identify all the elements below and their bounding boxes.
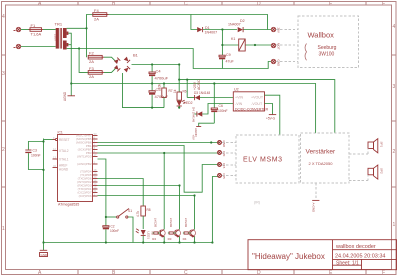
pad wallbox 2 — [271, 43, 280, 50]
terminal X1-2 — [14, 44, 21, 48]
svg-text:1: 1 — [393, 222, 396, 228]
junction — [78, 47, 80, 49]
svg-text:2 X TDA2050: 2 X TDA2050 — [309, 161, 334, 166]
svg-text:GND: GND — [41, 253, 49, 257]
svg-text:BC547: BC547 — [169, 217, 173, 227]
svg-text:P15: P15 — [222, 163, 226, 169]
junction LED2/minus rail — [178, 107, 180, 109]
svg-text:F: F — [382, 1, 385, 7]
svg-text:(INT1)PD3: (INT1)PD3 — [77, 155, 92, 159]
svg-text:K1: K1 — [231, 37, 235, 41]
fuse F4 — [93, 8, 109, 21]
wire TR1 sec bottom — [67, 48, 80, 50]
junction pad1 wire — [210, 141, 212, 143]
speaker SP1 — [368, 139, 384, 153]
capacitor C6 — [194, 82, 228, 137]
resistor R6 — [173, 80, 187, 101]
resistor R8 — [136, 206, 151, 229]
svg-text:2A: 2A — [89, 74, 94, 79]
svg-text:3: 3 — [2, 71, 5, 77]
svg-text:4: 4 — [2, 14, 5, 20]
ELV pads — [218, 141, 227, 149]
wire fuse to TR1 — [43, 29, 56, 31]
svg-text:MOT: MOT — [277, 43, 281, 50]
junction relay coil — [221, 44, 223, 46]
speaker SP2 — [368, 165, 384, 179]
wire F4 to D1 drop — [109, 15, 199, 30]
wire +5V net pad3 Z-path — [98, 146, 219, 193]
svg-text:IC1: IC1 — [58, 131, 63, 135]
capacitor C9 — [219, 53, 234, 69]
capacitor C5 — [149, 87, 169, 108]
svg-text:(AIN0)PB2: (AIN0)PB2 — [77, 162, 92, 166]
svg-text:F3: F3 — [89, 66, 94, 71]
svg-text:AGND: AGND — [59, 168, 69, 172]
svg-text:"Hideaway" Jukebox: "Hideaway" Jukebox — [252, 252, 325, 261]
svg-text:AGND: AGND — [63, 91, 67, 101]
svg-text:4700uF: 4700uF — [155, 75, 169, 80]
diode D2 — [228, 19, 245, 32]
svg-text:P20: P20 — [222, 151, 226, 157]
IC1 pin numbers — [53, 132, 97, 197]
svg-text:ATmega8535: ATmega8535 — [58, 202, 79, 206]
wire bus down to F2 — [86, 28, 88, 57]
brace — [305, 44, 307, 61]
svg-text:SP2: SP2 — [380, 168, 384, 174]
wire bridge minus down — [123, 73, 165, 108]
junction gnd rail end — [211, 241, 213, 243]
wire +VOUT to ELV — [265, 95, 280, 135]
svg-text:+VIN: +VIN — [235, 96, 243, 100]
svg-text:D: D — [257, 1, 261, 7]
svg-text:+VOUT: +VOUT — [251, 96, 264, 100]
svg-text:Seeburg: Seeburg — [318, 45, 337, 51]
wire T3 collector net — [98, 195, 195, 197]
LED1 — [136, 229, 155, 244]
svg-text:LED2: LED2 — [184, 101, 193, 105]
svg-text:100nF: 100nF — [31, 154, 41, 158]
svg-text:R8: R8 — [147, 208, 151, 212]
ground +5V-GND — [266, 115, 276, 121]
fuse F3 — [88, 66, 104, 79]
svg-text:4: 4 — [393, 24, 396, 30]
svg-text:F1: F1 — [31, 23, 36, 28]
wire F3 to bridge — [104, 68, 116, 73]
dashed link amp gnd — [315, 183, 317, 200]
fuse F1 — [29, 23, 44, 37]
dashed link amp to SP1 — [349, 153, 368, 155]
dashed links to wallbox — [276, 29, 298, 31]
svg-text:2A: 2A — [89, 59, 94, 64]
Verstaerker dashed box — [301, 133, 349, 183]
junction — [85, 27, 87, 29]
wire TR1 sec top to F4/F2 bus — [67, 27, 87, 29]
svg-text:LED1: LED1 — [147, 232, 151, 240]
wire relay coil drop — [221, 30, 223, 56]
svg-text:C3: C3 — [33, 149, 37, 153]
wire sec bottom to F3 — [79, 49, 88, 73]
svg-text:SP1: SP1 — [380, 142, 384, 148]
svg-text:B1: B1 — [133, 53, 139, 58]
wire reset pin stub — [44, 139, 53, 141]
svg-text:2: 2 — [2, 147, 5, 153]
wire bridge plus — [132, 64, 180, 66]
svg-text:D3 1N4148: D3 1N4148 — [194, 91, 210, 95]
svg-text:XTAL2: XTAL2 — [59, 149, 69, 153]
svg-text:230V: 230V — [54, 34, 58, 41]
svg-text:AC/DC: AC/DC — [197, 79, 201, 90]
svg-text:10k: 10k — [158, 83, 162, 89]
svg-text:GND: GND — [222, 141, 226, 149]
svg-text:R6: R6 — [183, 90, 187, 94]
wire pad4 to gnd rail — [212, 177, 218, 243]
ground GND — [40, 241, 49, 256]
capacitor C4 — [149, 65, 169, 91]
junction R7 top — [163, 82, 165, 84]
resistor R7 — [158, 83, 173, 107]
wire IC to ELV pad2 — [98, 152, 220, 154]
ELV MSM3 dashed box — [236, 135, 299, 183]
svg-text:RESET: RESET — [59, 138, 70, 142]
dashed links into ELV box — [222, 142, 236, 144]
svg-text:25V: 25V — [277, 28, 281, 33]
svg-text:C: C — [184, 1, 188, 7]
svg-text:1k: 1k — [173, 89, 177, 93]
junction +V rail — [178, 63, 180, 65]
svg-text:100nF: 100nF — [110, 229, 119, 233]
IC1 right pins — [93, 136, 98, 197]
svg-text:24.04.2005 20:03:34: 24.04.2005 20:03:34 — [335, 254, 385, 260]
svg-text:R4: R4 — [183, 237, 187, 241]
svg-text:+5V-G: +5V-G — [266, 117, 276, 121]
svg-text:XTAL1: XTAL1 — [59, 158, 69, 162]
svg-text:C9: C9 — [226, 53, 231, 57]
junction AGND rail — [151, 82, 153, 84]
wire IC pin to S1 — [98, 159, 106, 226]
capacitor C2 — [103, 225, 119, 244]
svg-text:2: 2 — [393, 149, 396, 155]
svg-text:GND: GND — [277, 60, 281, 68]
wire F2 to bridge — [104, 57, 116, 62]
svg-text:3: 3 — [393, 84, 396, 90]
svg-text:3W100: 3W100 — [319, 52, 335, 58]
capacitor C3 — [25, 149, 40, 158]
junction C4 top — [151, 63, 153, 65]
pad wallbox 1 — [271, 27, 280, 33]
wire terminal4 link — [98, 185, 180, 187]
diode D3 — [186, 79, 233, 101]
svg-text:Wallbox: Wallbox — [308, 31, 335, 40]
svg-text:BC547: BC547 — [154, 217, 158, 227]
svg-text:4.7k: 4.7k — [136, 211, 140, 217]
svg-text:T1,6A: T1,6A — [31, 32, 42, 37]
svg-text:1N4007: 1N4007 — [205, 31, 218, 35]
svg-text:D2: D2 — [240, 19, 245, 23]
svg-text:U2: U2 — [234, 88, 239, 92]
svg-text:F4: F4 — [94, 8, 99, 13]
svg-text:F2: F2 — [89, 51, 94, 56]
pad wallbox 3 — [271, 59, 280, 67]
svg-text:A-GND: A-GND — [311, 203, 315, 214]
AGND rail (center tap) — [71, 84, 315, 134]
transistor T2 — [168, 184, 181, 243]
svg-text:Sheet: 1/1: Sheet: 1/1 — [336, 261, 359, 267]
wire -VOUT to gnd — [265, 104, 273, 115]
wire bus up to F4 — [87, 14, 93, 28]
svg-text:TR1: TR1 — [55, 22, 63, 27]
svg-text:47uF: 47uF — [226, 60, 235, 64]
wire relay coil — [222, 44, 271, 46]
ground AGND — [63, 84, 75, 102]
ground A-GND amp — [311, 200, 319, 213]
wire D1 to D2 — [203, 29, 237, 31]
relay K1 — [231, 37, 245, 51]
svg-text:(IR): (IR) — [254, 201, 260, 205]
svg-text:F: F — [382, 270, 385, 276]
transformer TR1 — [54, 22, 69, 50]
dashed links ELV to amp — [299, 152, 301, 154]
wire C3 loop — [28, 142, 43, 170]
title block — [248, 240, 397, 270]
wallbox dashed box — [298, 16, 359, 67]
svg-text:Verstärker: Verstärker — [306, 149, 336, 156]
gnd bus left — [43, 139, 45, 243]
svg-text:wallbox decoder: wallbox decoder — [335, 244, 376, 250]
wire IC to ELV pad1 — [98, 142, 220, 144]
svg-text:100nF: 100nF — [218, 109, 228, 113]
transistor T1 — [152, 152, 165, 244]
+V rail — [156, 64, 179, 66]
diode D1 — [197, 26, 217, 35]
svg-text:C2: C2 — [111, 225, 115, 229]
svg-text:ELV MSM3: ELV MSM3 — [243, 157, 283, 164]
gnd rail bottom — [44, 242, 213, 244]
svg-text:C4: C4 — [156, 68, 162, 73]
svg-text:-VOUT: -VOUT — [251, 102, 263, 106]
svg-text:P05: P05 — [222, 174, 226, 180]
svg-text:C: C — [184, 270, 188, 276]
svg-text:(ICP)PD6: (ICP)PD6 — [79, 194, 92, 198]
wire IC pin to R8 chain — [98, 179, 144, 207]
fuse F2 — [88, 51, 104, 64]
svg-text:C6: C6 — [219, 104, 223, 108]
LED2 — [177, 100, 193, 107]
svg-text:R3: R3 — [168, 237, 172, 241]
transistor T3 — [183, 194, 196, 243]
junction C3 bus — [42, 140, 44, 142]
IC1 microcontroller — [58, 131, 93, 207]
IC1 right pin names — [76, 134, 92, 199]
bridge rectifier B1 — [114, 53, 139, 73]
svg-text:+5V: +5V — [192, 135, 196, 140]
svg-text:BC547: BC547 — [184, 217, 188, 227]
svg-text:DC/DC-CONVERTER: DC/DC-CONVERTER — [235, 107, 269, 111]
DC/DC converter U2 — [233, 88, 268, 112]
svg-text:2A: 2A — [94, 16, 99, 21]
svg-text:1: 1 — [2, 226, 5, 232]
svg-text:D4 1N4148: D4 1N4148 — [192, 107, 196, 123]
terminal X1-1 — [14, 27, 21, 31]
junction D1-D2 node — [221, 28, 223, 30]
svg-text:S1: S1 — [128, 209, 132, 213]
wire pad3 return — [222, 62, 271, 69]
wire D2 to pad1 — [244, 29, 272, 31]
junction C5 bottom — [151, 107, 153, 109]
wire AC to wallbox return — [79, 49, 222, 69]
svg-text:1N4007: 1N4007 — [228, 22, 241, 26]
wire top bypass to pad1 — [191, 15, 268, 30]
svg-text:R2: R2 — [152, 237, 156, 241]
transformer center tap wires — [68, 33, 71, 83]
wire mains top — [21, 29, 30, 31]
wire mains bottom — [21, 46, 56, 48]
svg-text:D: D — [257, 270, 261, 276]
IC1 left pins — [53, 138, 70, 172]
dashed link amp to SP2 — [349, 180, 368, 182]
switch S1 — [105, 209, 133, 243]
svg-text:-VIN: -VIN — [235, 102, 243, 106]
diode D4 — [192, 104, 234, 123]
